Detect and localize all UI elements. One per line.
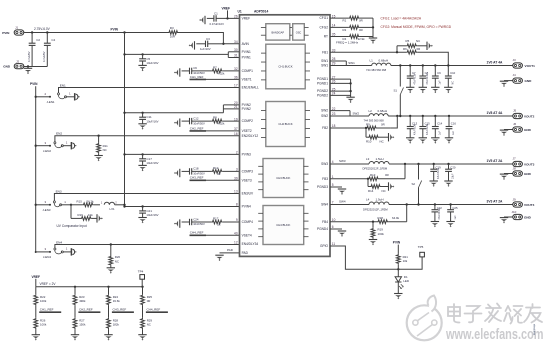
ground at C5 <box>138 65 146 71</box>
svg-text:R1: R1 <box>343 19 347 23</box>
ground at C17 <box>138 165 146 171</box>
ground at R27 <box>71 335 79 341</box>
resistor R15 56.2k <box>71 204 82 206</box>
svg-text:34: 34 <box>234 40 238 44</box>
svg-text:VOUT2: VOUT2 <box>524 114 535 118</box>
svg-text:8: 8 <box>236 203 238 207</box>
svg-text:EN3/UV: EN3/UV <box>242 192 254 196</box>
ground at C25 <box>446 222 454 228</box>
resistor R18 64.9k sense <box>377 220 388 224</box>
svg-text:9: 9 <box>236 218 238 222</box>
svg-text:744 383 560 068: 744 383 560 068 <box>366 68 387 72</box>
svg-text:3V3 AT 2A: 3V3 AT 2A <box>487 199 504 203</box>
svg-text:4.7uF/6V: 4.7uF/6V <box>42 51 46 62</box>
ground at PGND3 pin 5 <box>330 186 342 188</box>
svg-text:L2: L2 <box>369 109 373 113</box>
wire PVIN row y=206.5 <box>125 206 240 208</box>
wire EN4 net riser <box>55 245 240 249</box>
svg-text:SW1: SW1 <box>321 59 328 63</box>
svg-text:COMP2: COMP2 <box>242 119 254 123</box>
comp network C18 + R12 <box>174 169 180 177</box>
wire R9 sense to VOUT2 rail <box>391 116 398 128</box>
ground at J6 <box>500 130 508 136</box>
svg-text:SW1: SW1 <box>348 61 355 65</box>
capacitor C22 output <box>434 205 436 210</box>
svg-text:J3: J3 <box>513 58 517 62</box>
wire CFG/RT common ground <box>372 18 374 38</box>
svg-text:PVIN: PVIN <box>2 31 10 35</box>
ground at R19 <box>369 240 377 246</box>
connector J9 VOUT4 <box>513 202 523 207</box>
svg-text:PGND1: PGND1 <box>317 82 328 86</box>
svg-text:C14: C14 <box>437 121 443 125</box>
svg-text:EN1/ENALL: EN1/ENALL <box>242 86 259 90</box>
svg-text:CH1:BUCK: CH1:BUCK <box>278 65 292 69</box>
svg-text:COMP3: COMP3 <box>242 170 254 174</box>
svg-text:VSET2: VSET2 <box>242 129 252 133</box>
svg-text:NC: NC <box>380 140 384 144</box>
svg-text:VREF: VREF <box>222 6 231 10</box>
svg-text:CH4_REF: CH4_REF <box>147 308 161 312</box>
PAD pin ground <box>220 252 240 254</box>
capacitor C5 10uF/16V <box>142 54 144 58</box>
svg-text:AVIN: AVIN <box>242 42 250 46</box>
svg-text:47uF/6.3V: 47uF/6.3V <box>426 73 429 84</box>
svg-text:J6: J6 <box>513 122 517 126</box>
wire EN3 pole from PVIN rail <box>36 204 50 206</box>
svg-text:C16: C16 <box>451 121 457 125</box>
svg-text:L3: L3 <box>366 157 370 161</box>
resistor R29 NC divider bottom <box>141 318 145 329</box>
svg-text:PVIN: PVIN <box>111 27 119 31</box>
block BANDGAP inside U1 <box>266 24 290 40</box>
capacitor C11 10uF/16V <box>142 113 144 117</box>
svg-text:47uF/6.3V: 47uF/6.3V <box>413 124 416 135</box>
inductor L3 1.5uH <box>369 162 389 165</box>
svg-text:RT: RT <box>324 35 328 39</box>
capacitor C25 output <box>450 205 452 210</box>
watermark chinese text 电子发烧友 <box>448 304 542 324</box>
svg-text:100k: 100k <box>40 323 47 327</box>
svg-text:100k: 100k <box>378 232 385 236</box>
svg-text:21: 21 <box>234 105 238 109</box>
svg-text:NC: NC <box>147 323 151 327</box>
wire PVIN row y=54.4 <box>125 53 229 55</box>
ground at C21 <box>138 218 146 224</box>
wire FB4 row <box>330 221 377 223</box>
jack socket J-EN2 pin1 <box>63 145 71 147</box>
capacitor C2 4.7uF/6V <box>31 33 33 44</box>
svg-text:19.6k: 19.6k <box>113 299 121 303</box>
svg-text:1uF: 1uF <box>439 80 442 85</box>
svg-text:GPIO: GPIO <box>320 244 328 248</box>
ground at C13 <box>406 138 414 144</box>
connector J8 GND <box>504 173 513 175</box>
svg-text:SW4: SW4 <box>339 200 346 204</box>
inductor L4 1.5uH <box>369 202 389 205</box>
svg-text:0.47uF/10V: 0.47uF/10V <box>210 22 225 26</box>
ground at CFG resistors <box>369 38 377 44</box>
svg-text:J-EN4: J-EN4 <box>43 255 51 259</box>
resistor R13 0R sense <box>368 177 379 181</box>
wire EN1 pole from PVIN rail <box>36 96 50 98</box>
svg-text:VSET4: VSET4 <box>242 233 252 237</box>
svg-text:2: 2 <box>236 151 238 155</box>
svg-text:PVIN: PVIN <box>30 82 38 86</box>
wire EN2 net riser <box>55 136 240 142</box>
ground at R10 (sideways) <box>389 133 395 141</box>
svg-text:J5: J5 <box>513 108 517 112</box>
capacitor C3 1uF/10V on AVIN <box>189 41 195 49</box>
connector J10 GND <box>504 216 513 218</box>
svg-text:SW1: SW1 <box>321 64 328 68</box>
svg-text:C6: C6 <box>193 66 197 70</box>
svg-text:GND: GND <box>524 172 532 176</box>
svg-text:10R: 10R <box>170 35 175 39</box>
resistor R9 0R sense <box>366 126 377 130</box>
svg-text:R7: R7 <box>213 66 217 70</box>
svg-text:490k: 490k <box>79 299 86 303</box>
capacitor C21 10uF/16V <box>142 207 144 211</box>
resistor R25 0R divider top <box>142 287 144 294</box>
svg-text:100k: 100k <box>40 299 47 303</box>
connector J5 VOUT2 <box>513 113 523 118</box>
capacitor C10 output <box>447 66 449 77</box>
svg-text:NC: NC <box>103 148 107 152</box>
svg-text:R6: R6 <box>403 47 407 51</box>
svg-text:C10: C10 <box>450 71 456 75</box>
svg-text:PVIN2: PVIN2 <box>242 107 251 111</box>
svg-text:PVIN3: PVIN3 <box>242 153 251 157</box>
svg-text:0R: 0R <box>359 19 363 23</box>
svg-text:NC: NC <box>416 39 420 43</box>
ground at PGND4 pin 6 <box>330 228 342 230</box>
svg-text:47uF/6.3V: 47uF/6.3V <box>438 208 441 219</box>
capacitor C4 4.7uF/6V <box>46 33 48 44</box>
ground at J8 <box>500 174 508 180</box>
svg-text:1.5uH: 1.5uH <box>376 157 384 161</box>
svg-text:SW4: SW4 <box>321 203 328 207</box>
svg-text:UV Comparator Input: UV Comparator Input <box>57 224 87 228</box>
svg-text:J4: J4 <box>513 73 517 77</box>
svg-text:R15: R15 <box>77 199 83 203</box>
svg-text:PGND4: PGND4 <box>317 227 328 231</box>
resistor R21 10k <box>396 254 400 264</box>
svg-text:PAD: PAD <box>227 248 234 252</box>
connector J4 GND <box>504 80 513 82</box>
svg-text:C18: C18 <box>193 167 199 171</box>
svg-text:R2: R2 <box>343 28 347 32</box>
svg-text:R3: R3 <box>170 26 174 30</box>
ground at C7 <box>406 87 414 93</box>
svg-text:NC: NC <box>382 189 386 193</box>
svg-text:NC: NC <box>452 81 455 85</box>
wire FB2 row <box>330 127 366 129</box>
svg-text:PAD: PAD <box>242 251 249 255</box>
svg-text:1uF/10V: 1uF/10V <box>200 47 211 51</box>
svg-text:S2: S2 <box>412 182 416 186</box>
ground at C8 <box>419 87 427 93</box>
resistor R23 490k divider top <box>74 287 76 294</box>
svg-text:ADP5014: ADP5014 <box>254 9 268 13</box>
svg-text:SW3: SW3 <box>339 159 346 163</box>
svg-text:COMP4: COMP4 <box>242 220 254 224</box>
ground at C10 <box>444 87 452 93</box>
svg-text:U1: U1 <box>238 9 242 13</box>
svg-text:36: 36 <box>234 76 238 80</box>
switch S2 output parallel <box>418 164 420 180</box>
svg-text:R10: R10 <box>366 140 372 144</box>
svg-text:R17: R17 <box>213 217 219 221</box>
ground at R14 (sideways) <box>389 182 395 190</box>
ground at R5 (sideways) <box>427 42 433 50</box>
block CH4:BUCK inside U1 <box>263 206 304 245</box>
resistor R4 92.9k on RT <box>330 36 349 38</box>
svg-text:C3: C3 <box>206 37 210 41</box>
wire PVIN row y=154.4 <box>125 153 240 155</box>
connector J1 PVIN input <box>14 30 24 35</box>
svg-text:LX1: LX1 <box>110 207 116 211</box>
ground at C16 <box>445 138 453 144</box>
svg-text:4.7uF/6V: 4.7uF/6V <box>27 51 31 62</box>
svg-text:SW2: SW2 <box>321 109 328 113</box>
wire VOUT3 rail <box>389 163 513 165</box>
wire SW4 to L4 <box>330 204 369 206</box>
wire PVIN input rail <box>24 32 168 34</box>
wire PGND1/PGND2 pin stubs <box>330 78 351 80</box>
svg-text:PVIN1: PVIN1 <box>242 50 251 54</box>
resistor R1 0R on CFG1 <box>330 17 349 19</box>
svg-text:EN2/DLY12: EN2/DLY12 <box>242 134 259 138</box>
wire FB3 row <box>330 178 368 180</box>
svg-text:DFE252012F_1R5M: DFE252012F_1R5M <box>363 167 388 171</box>
svg-text:SW2: SW2 <box>353 111 360 115</box>
svg-text:0R: 0R <box>359 28 363 32</box>
svg-text:elecfans: elecfans <box>533 324 537 336</box>
svg-text:17: 17 <box>234 84 238 88</box>
wire R18 sense to VOUT4 rail <box>406 205 408 222</box>
svg-text:FB2: FB2 <box>322 126 328 130</box>
capacitor C9 output <box>434 66 436 77</box>
svg-text:182k: 182k <box>113 323 120 327</box>
svg-text:1uF: 1uF <box>454 215 457 220</box>
svg-text:CH1_REF: CH1_REF <box>40 308 54 312</box>
svg-text:NC: NC <box>115 259 119 263</box>
svg-text:GND: GND <box>524 215 532 219</box>
jumper J-EN4 <box>54 248 56 250</box>
capacitor C8 output <box>422 66 424 77</box>
svg-text:VOUT1: VOUT1 <box>525 64 536 68</box>
svg-text:C20: C20 <box>450 165 456 169</box>
svg-text:C9: C9 <box>437 71 441 75</box>
svg-text:CH3_REF: CH3_REF <box>113 308 127 312</box>
wire EN2 pole from PVIN rail <box>36 145 50 147</box>
svg-text:R18: R18 <box>378 216 384 220</box>
U1 right pin names and numbers <box>317 14 336 248</box>
svg-text:13: 13 <box>234 190 238 194</box>
LED D1 <box>397 269 399 277</box>
svg-text:0R: 0R <box>381 122 385 126</box>
wire PVIN vertical rail right (x=124.5) <box>124 33 126 207</box>
svg-text:10uF/16V: 10uF/16V <box>146 119 158 123</box>
ground at R28 <box>104 335 112 341</box>
connector J2 GND input <box>14 64 24 69</box>
svg-text:10uF/16V: 10uF/16V <box>146 61 158 65</box>
resistor R16 10k UV comparator <box>70 205 72 219</box>
ground at D1 <box>394 294 402 300</box>
block OSC inside U1 <box>293 24 305 40</box>
svg-text:26: 26 <box>234 15 238 19</box>
svg-text:FB4: FB4 <box>322 220 328 224</box>
svg-text:10k: 10k <box>403 259 408 263</box>
wire EN1 net riser <box>59 88 240 93</box>
svg-text:SW3: SW3 <box>321 162 328 166</box>
wire R6 sense to VOUT1 rail <box>417 52 448 65</box>
svg-text:C25: C25 <box>452 206 458 210</box>
svg-text:SW2: SW2 <box>321 114 328 118</box>
resistor R11 NC on EN2 <box>97 135 99 137</box>
svg-text:47uF/6.3V: 47uF/6.3V <box>437 168 440 179</box>
ground at C19 <box>430 181 438 187</box>
svg-text:OSC: OSC <box>296 31 302 35</box>
svg-text:40: 40 <box>234 232 238 236</box>
svg-text:GND: GND <box>525 79 533 83</box>
svg-text:10k: 10k <box>88 213 93 217</box>
capacitor C20 output <box>448 164 450 169</box>
resistor R5 NC feedback <box>396 46 398 52</box>
wire R3 to AVIN pin <box>179 33 240 44</box>
svg-text:0R: 0R <box>385 173 389 177</box>
svg-text:0.68uH: 0.68uH <box>379 59 389 63</box>
wire PVIN row y=112.8 <box>125 112 224 114</box>
svg-text:31: 31 <box>234 54 238 58</box>
capacitor C17 10uF/16V <box>142 154 144 158</box>
svg-text:EN3: EN3 <box>56 189 62 193</box>
block CH1:BUCK inside U1 <box>266 44 305 89</box>
svg-text:150k: 150k <box>79 323 86 327</box>
connector J3 VOUT1 <box>513 63 523 68</box>
svg-text:PVIN1: PVIN1 <box>242 56 251 60</box>
svg-text:92.9k: 92.9k <box>358 37 366 41</box>
svg-text:DFE252012F_1R5M: DFE252012F_1R5M <box>363 207 388 211</box>
svg-text:VREF = 2V: VREF = 2V <box>40 282 57 286</box>
svg-text:CH4_REF: CH4_REF <box>190 231 204 235</box>
jumper J-EN1 <box>58 93 60 95</box>
capacitor C19 output <box>433 164 435 169</box>
svg-text:12: 12 <box>234 240 238 244</box>
svg-text:EN2: EN2 <box>56 132 62 136</box>
svg-text:0.68uH: 0.68uH <box>378 109 388 113</box>
svg-text:L4: L4 <box>366 198 370 202</box>
comp network C6 + R7 <box>174 68 180 76</box>
svg-text:4.32k: 4.32k <box>218 72 225 76</box>
svg-text:32: 32 <box>234 67 238 71</box>
svg-text:16: 16 <box>234 132 238 136</box>
inductor L1 0.68uH <box>372 63 391 65</box>
svg-text:J-EN3: J-EN3 <box>42 208 50 212</box>
svg-text:J10: J10 <box>512 210 517 214</box>
svg-text:1uF: 1uF <box>452 130 455 135</box>
svg-text:CFG1: Load = 4A/4A/2A/2A: CFG1: Load = 4A/4A/2A/2A <box>381 17 422 21</box>
svg-text:CH4:BUCK: CH4:BUCK <box>276 223 290 227</box>
capacitor C1 0.47uF/10V on VREF <box>199 16 205 24</box>
ground at R29 <box>138 335 146 341</box>
svg-text:J2: J2 <box>16 59 20 63</box>
svg-text:R16: R16 <box>78 213 84 217</box>
inductor L2 0.68uH <box>369 114 388 116</box>
ground at R20 <box>107 268 115 274</box>
wire VREF divider rail <box>36 286 143 288</box>
wire GPIO to LED node <box>330 246 422 269</box>
resistor R20 NC on EN4 <box>110 243 112 245</box>
test point TP4 <box>140 275 145 280</box>
svg-text:LED: LED <box>403 279 410 283</box>
svg-text:J8: J8 <box>513 167 517 171</box>
svg-text:J-EN2: J-EN2 <box>43 149 51 153</box>
svg-text:10uF/16V: 10uF/16V <box>146 161 158 165</box>
svg-text:47uF/6.3V: 47uF/6.3V <box>426 124 429 135</box>
svg-text:VREF: VREF <box>242 17 251 21</box>
svg-text:FB1: FB1 <box>322 50 328 54</box>
wire SW2 pins to L2 <box>330 110 350 112</box>
svg-text:CFG2: CFG2 <box>319 26 328 30</box>
wire FB1 row <box>330 51 406 53</box>
wire input cap return <box>24 66 48 68</box>
svg-text:FB3: FB3 <box>322 177 328 181</box>
wire EN4 pole from PVIN rail <box>36 251 50 253</box>
svg-text:GND: GND <box>524 128 532 132</box>
svg-text:PGND3: PGND3 <box>317 185 328 189</box>
svg-text:4.32k: 4.32k <box>218 122 225 126</box>
op-amp U1 ADP5014 IC body <box>240 15 331 257</box>
block CH2:BUCK inside U1 <box>266 102 305 147</box>
resistor R14 NC feedback <box>367 178 369 180</box>
svg-text:VSET3: VSET3 <box>242 178 252 182</box>
ground at J10 <box>500 218 508 224</box>
svg-text:J-EN1: J-EN1 <box>47 100 55 104</box>
ground at PGND1/PGND2 <box>346 97 354 103</box>
svg-text:VREF: VREF <box>32 275 41 279</box>
svg-text:1V8 AT 4A: 1V8 AT 4A <box>487 111 504 115</box>
resistor R6 0R sense <box>406 50 417 54</box>
svg-text:S1: S1 <box>394 89 398 93</box>
wire VOUT2 rail <box>388 115 513 117</box>
ground at J2 <box>24 68 32 74</box>
svg-text:PGND2: PGND2 <box>317 94 328 98</box>
svg-text:1.5uH: 1.5uH <box>376 198 384 202</box>
jack socket J-EN1 pin1 <box>67 96 75 98</box>
wire VOUT1 rail <box>391 65 513 67</box>
ground at J4 <box>500 81 508 87</box>
svg-text:C4: C4 <box>51 38 55 42</box>
switch S1 output parallel <box>399 66 401 87</box>
svg-text:64.9k: 64.9k <box>392 216 400 220</box>
svg-text:FREQ = 1.2MHz: FREQ = 1.2MHz <box>336 41 359 45</box>
capacitor C14 output <box>434 116 436 127</box>
ground at R16 (sideways) <box>97 214 103 222</box>
svg-text:10uF/16V: 10uF/16V <box>146 213 158 217</box>
svg-text:10nF/50V: 10nF/50V <box>193 222 205 226</box>
test point TP5 <box>420 252 425 257</box>
svg-text:PVIN: PVIN <box>393 241 401 245</box>
ground at R26 <box>32 335 40 341</box>
jack socket J-EN4 pin1 <box>63 251 71 253</box>
svg-text:VOUT4: VOUT4 <box>524 203 535 207</box>
svg-text:39: 39 <box>234 177 238 181</box>
svg-text:0R: 0R <box>147 299 151 303</box>
svg-text:37: 37 <box>234 127 238 131</box>
wire SW3 to L3 <box>330 163 369 165</box>
